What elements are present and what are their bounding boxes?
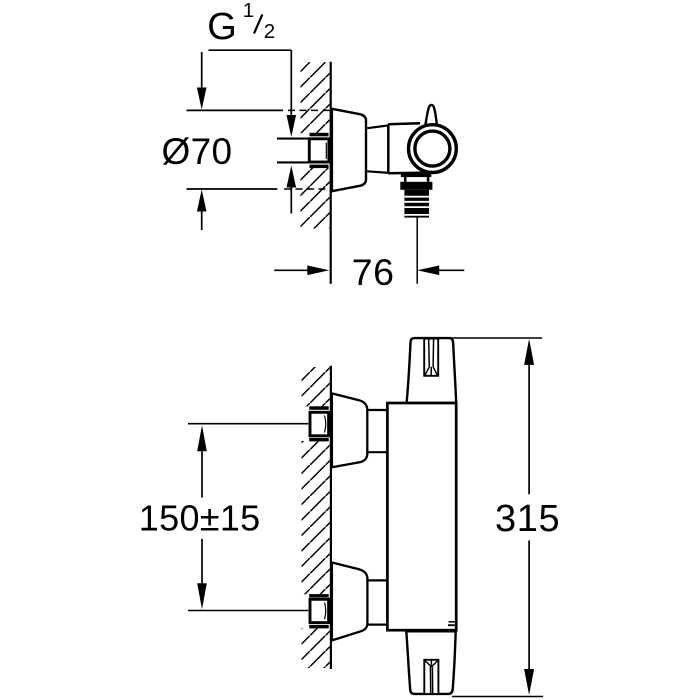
wall face line (top view): [330, 62, 332, 284]
dim drop line right with arrow to pipe top: [287, 50, 297, 137]
wall hatching (bottom view): [302, 367, 330, 668]
neck (top view): [367, 125, 389, 173]
outlet side bars: [404, 177, 430, 182]
union flange bars (top view): [310, 133, 329, 168]
bottom escutcheon (bottom view): [332, 563, 368, 641]
bottom knob (bottom view): [406, 631, 455, 694]
extension line O70 bottom: [187, 188, 331, 190]
wall face line (bottom view): [330, 366, 332, 669]
brand mark on body: [448, 622, 455, 625]
dim drop line left (shared G1/2 / O70 upper arrow): [197, 52, 207, 110]
shower outlet flange: [401, 174, 431, 177]
outlet nut: [400, 182, 432, 190]
label G 1/2: [207, 0, 275, 48]
svg-text:2: 2: [264, 20, 275, 43]
handle fin on top: [425, 105, 437, 128]
svg-text:Ø70: Ø70: [162, 131, 233, 172]
bottom knob grip slot: [424, 660, 438, 694]
extension line 150 bottom: [188, 610, 308, 612]
top escutcheon (bottom view): [332, 393, 367, 467]
top union flange bars (bottom view): [309, 406, 329, 441]
supply pipe stub (top view): [277, 139, 309, 163]
outlet thread: [404, 190, 429, 218]
handle outer ring (top view): [409, 125, 457, 173]
escutcheon (top view): [332, 109, 366, 191]
extension line 315 bottom: [452, 696, 543, 698]
bottom union square nut (bottom view): [310, 599, 329, 622]
top knob grip slot: [424, 339, 438, 376]
handle inner ring (top view): [415, 131, 450, 166]
extension line O70 top: [187, 109, 331, 111]
top union square nut (bottom view): [310, 412, 329, 436]
extension line 150 top: [188, 423, 308, 425]
bottom neck (bottom view): [368, 580, 388, 624]
extension line 315 top: [450, 337, 542, 339]
wall hatching (top view): [301, 62, 330, 229]
union square nut (top view): [309, 139, 329, 162]
valve housing (top view): [388, 123, 432, 173]
svg-text:G: G: [207, 6, 237, 48]
svg-text:315: 315: [495, 498, 560, 540]
svg-text:76: 76: [352, 251, 395, 293]
svg-text:150±15: 150±15: [139, 497, 261, 538]
leader line G1/2: [209, 49, 292, 51]
mixer body (bottom view): [387, 403, 456, 630]
svg-text:1: 1: [243, 0, 254, 22]
top neck (bottom view): [368, 410, 388, 452]
O70 lower arrow (up): [197, 190, 207, 231]
dimension 150+-15: [139, 425, 261, 609]
outlet centre line: [416, 218, 418, 284]
G1/2 lower arrow (up): [287, 166, 297, 214]
dimension 315: [495, 339, 560, 695]
top knob (bottom view): [407, 338, 457, 403]
dimension 76: [274, 251, 464, 293]
bottom union flange bars (bottom view): [309, 594, 329, 628]
